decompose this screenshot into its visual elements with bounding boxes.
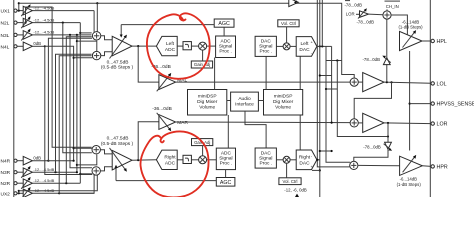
svg-text:Proc .: Proc . <box>260 160 273 166</box>
wire <box>17 182 23 184</box>
wire N2R tap up into sum1 <box>65 182 67 184</box>
svg-text:Proc .: Proc . <box>219 48 232 54</box>
svg-text:miniDSP: miniDSP <box>198 94 217 100</box>
left chip border rail <box>13 0 15 197</box>
wire <box>17 45 23 47</box>
svg-text:Dig Mixer: Dig Mixer <box>197 99 218 105</box>
svg-text:-12...-4.5dB: -12...-4.5dB <box>33 17 54 22</box>
multiplier <box>283 156 290 163</box>
svg-text:0dB: 0dB <box>33 41 41 46</box>
wire pga out up to MAR <box>138 122 159 160</box>
wire row1 out <box>32 10 94 12</box>
label CH_IN (cut) <box>385 0 401 2</box>
wire N3R out <box>32 171 77 173</box>
svg-text:-78...0dB: -78...0dB <box>363 57 381 62</box>
amp N4R (fixed) <box>23 155 41 165</box>
amp LOR to HPL <box>358 8 369 18</box>
decimation filter box <box>183 155 191 163</box>
Right DAC <box>296 150 317 170</box>
MICPGA right <box>101 135 134 180</box>
AGC box <box>214 19 234 27</box>
wire Gain Adj to multiplier <box>202 146 204 156</box>
miniDSP left box <box>188 90 227 116</box>
wire Right DAC out <box>317 159 320 161</box>
LOR driver amp <box>363 113 384 132</box>
svg-text:-6...14dB: -6...14dB <box>400 176 418 181</box>
ADC Signal Proc box <box>216 148 235 170</box>
svg-text:-12...-4.5dB: -12...-4.5dB <box>33 178 54 183</box>
wire <box>17 34 23 36</box>
svg-text:miniDSP: miniDSP <box>274 94 293 100</box>
svg-text:AGC: AGC <box>220 180 232 186</box>
wire ADC SP to AGC <box>225 170 227 178</box>
summing node HPL <box>383 11 391 19</box>
summing node sum1 <box>92 32 100 40</box>
wire sum4 to pga <box>100 167 112 171</box>
wire lattice h2 <box>326 88 337 90</box>
wire pga out down to MAL <box>138 46 159 82</box>
svg-text:N2R: N2R <box>1 181 11 187</box>
svg-text:Right: Right <box>299 155 311 161</box>
svg-text:-12...-4.5dB: -12...-4.5dB <box>33 167 54 172</box>
wire N2R staircase into sum4 <box>79 173 81 175</box>
svg-text:-78...0dB: -78...0dB <box>363 144 381 149</box>
wire row4 staircase into sum2 / sum3 <box>45 46 74 160</box>
red circle around Left ADC <box>147 13 210 78</box>
svg-text:N2L: N2L <box>1 21 10 27</box>
Right ADC <box>156 150 177 169</box>
wire lattice h1 <box>320 75 332 77</box>
wire AI links <box>227 100 231 102</box>
svg-text:ADC: ADC <box>165 161 176 167</box>
wire N4R tap up into sum1 <box>47 160 49 162</box>
wire to HPR pin <box>422 165 431 168</box>
cut amp top <box>289 0 299 7</box>
LOL driver amp <box>363 73 384 92</box>
svg-text:DAC: DAC <box>299 47 310 53</box>
wire row2 staircase into sum1 <box>79 23 81 184</box>
wire <box>276 159 283 161</box>
wire row3 tap down into sum4 <box>69 34 71 36</box>
wire N4R out <box>32 160 48 162</box>
wire <box>177 159 183 161</box>
summing node sum3 <box>92 146 100 154</box>
wire AGC to MICPGA control <box>121 24 214 26</box>
svg-text:HPR: HPR <box>437 164 448 170</box>
summing node sum4 <box>92 167 100 175</box>
svg-text:UX1: UX1 <box>1 9 11 15</box>
wire LOL loopback to LOR sum <box>354 82 391 119</box>
wire HPR sum to driver <box>358 164 400 166</box>
wire sum3 to pga <box>100 150 112 154</box>
svg-text:LOL: LOL <box>437 81 447 87</box>
Left DAC <box>296 37 317 57</box>
wire <box>191 159 198 161</box>
pin HPVSS_SENSE <box>431 102 434 105</box>
svg-text:N4L: N4L <box>1 44 10 50</box>
wire N2R out <box>32 182 80 184</box>
right chip border rail <box>429 0 431 197</box>
wire Left DAC to miniDSP right <box>299 56 301 89</box>
pin LOR <box>431 122 434 125</box>
wire <box>276 45 283 47</box>
wire rail 317 <box>317 0 350 167</box>
multiplier <box>283 43 290 50</box>
amp N3R <box>21 166 54 178</box>
svg-text:Proc .: Proc . <box>260 49 273 55</box>
wire sum2 to pga <box>101 52 112 56</box>
wire AGC to ADC SP <box>223 27 225 36</box>
svg-text:LOR: LOR <box>437 122 448 128</box>
wire AUX2 tap up into sum2 <box>58 192 60 194</box>
svg-text:Vol. Ctrl: Vol. Ctrl <box>281 21 296 26</box>
wire <box>17 22 23 24</box>
wire <box>17 192 23 194</box>
wire bypass A from AUX1 row <box>18 10 20 12</box>
amp row3 <box>21 29 54 41</box>
svg-text:Right: Right <box>164 155 176 161</box>
pin HPR <box>431 165 434 168</box>
wire Gain Adj to multiplier <box>202 50 204 61</box>
amp N2R <box>21 177 54 189</box>
wire DAC SP to miniDSP right <box>265 56 267 89</box>
sense rail <box>409 51 411 151</box>
wire LOR out <box>384 122 431 125</box>
amp row2 <box>21 16 54 28</box>
wire to HPL pin <box>422 40 431 42</box>
svg-text:Volume: Volume <box>199 104 215 110</box>
svg-text:N4R: N4R <box>1 159 11 165</box>
HPL driver amp <box>398 19 423 50</box>
wire <box>290 45 296 47</box>
svg-text:CH_IN: CH_IN <box>386 4 399 9</box>
svg-text:Proc .: Proc . <box>220 161 233 167</box>
svg-text:Left: Left <box>300 41 309 47</box>
svg-text:(0.5-dB Steps ): (0.5-dB Steps ) <box>101 141 134 147</box>
wire bottom bypass <box>18 192 20 194</box>
wire lattice h3 <box>320 150 332 152</box>
wire rail 322 <box>321 0 323 46</box>
Vol Ctrl box <box>279 178 301 185</box>
Left ADC <box>156 36 177 55</box>
wire LOL out <box>384 82 431 83</box>
svg-text:(0.5-dB Steps ): (0.5-dB Steps ) <box>101 65 134 71</box>
HPR driver amp <box>397 155 423 187</box>
pin LOL <box>431 82 434 85</box>
summing node LOL <box>350 78 358 86</box>
wire to HPL sum <box>369 13 383 16</box>
wire row3 tap2 into sum2 top <box>76 34 78 36</box>
svg-text:-12, -6, 0dB: -12, -6, 0dB <box>284 188 307 193</box>
wire bypass A branch into sum1 top <box>96 2 98 4</box>
wire HPL sum to driver <box>391 15 407 34</box>
svg-text:Volume: Volume <box>275 104 291 110</box>
svg-text:Audio: Audio <box>238 96 251 102</box>
ADC Signal Proc box <box>216 36 236 58</box>
svg-text:DAC: DAC <box>299 161 310 167</box>
wire <box>17 171 23 173</box>
amp row4 (fixed gain) <box>23 41 41 51</box>
wire <box>191 45 198 47</box>
wire N4R to bus join <box>48 160 73 162</box>
svg-text:Left: Left <box>166 41 175 47</box>
AGC box <box>216 178 235 187</box>
wire pga out to Left ADC <box>132 45 156 47</box>
svg-text:-12...-4.5dB: -12...-4.5dB <box>33 30 54 35</box>
wire <box>17 160 23 162</box>
wire 331 <box>331 46 333 122</box>
summing node LOR <box>350 119 358 127</box>
wire Vol Ctrl to multiplier <box>286 27 288 43</box>
wire rail 320 <box>319 0 321 197</box>
wire to pin <box>410 103 431 105</box>
wire <box>207 45 216 47</box>
DAC Signal Proc box <box>255 36 276 56</box>
wire N3R tap up into sum2 <box>54 171 56 173</box>
svg-text:HPVSS_SENSE: HPVSS_SENSE <box>437 102 474 108</box>
summing node HPR <box>350 161 358 169</box>
wire miniDSP left to ADC SP bottom <box>227 115 229 148</box>
Audio Interface box <box>231 92 259 111</box>
Gain Adj box <box>192 139 213 146</box>
svg-text:0...47.5dB: 0...47.5dB <box>107 135 129 141</box>
decimation filter box <box>183 42 191 50</box>
wire bypass B from IN2L row <box>24 22 26 24</box>
red circle around Right ADC <box>140 131 208 197</box>
multiplier <box>199 156 207 164</box>
wire row4 out <box>32 45 44 47</box>
svg-text:0dB: 0dB <box>33 155 41 160</box>
feedback amp LOR to HPR sum <box>354 123 392 161</box>
amp row1 <box>21 4 54 16</box>
wire MAL out to LOL sum <box>176 81 350 83</box>
wire row3 out <box>32 34 91 36</box>
wire Left DAC out <box>317 45 332 47</box>
multiplier (digital volume) <box>199 42 207 50</box>
wire AUX2 corner into sum4 bottom <box>59 175 94 194</box>
svg-text:Interface: Interface <box>235 102 254 108</box>
wire row1 corner into sum1 top <box>93 11 95 32</box>
svg-text:-78...0dB: -78...0dB <box>345 2 363 7</box>
svg-text:(1-dB Steps): (1-dB Steps) <box>398 25 423 30</box>
wire <box>177 45 183 47</box>
amp AUX2 <box>21 187 54 199</box>
svg-text:N3L: N3L <box>1 33 10 39</box>
wire N3R tap2 into sum3 bottom <box>76 171 78 173</box>
svg-text:-36...0dB: -36...0dB <box>152 106 171 112</box>
svg-text:-12...-4.5dB: -12...-4.5dB <box>33 5 54 10</box>
svg-text:N3R: N3R <box>1 170 11 176</box>
summing node sum2 <box>92 51 100 59</box>
svg-text:LOR: LOR <box>346 12 355 17</box>
wire miniDSP right to Right DAC <box>299 115 301 150</box>
wire <box>17 10 23 12</box>
wire 337 <box>326 60 342 62</box>
svg-text:ADC: ADC <box>165 47 176 53</box>
wire ADC SP to miniDSP left <box>214 58 216 90</box>
wire row4 tap down into sum4 <box>44 45 46 47</box>
svg-text:AGC: AGC <box>218 21 230 27</box>
MICPGA left <box>101 25 134 71</box>
wire pga out to Right ADC <box>132 159 156 161</box>
Gain Adj box <box>191 61 212 68</box>
svg-text:-78...0dB: -78...0dB <box>357 19 375 24</box>
svg-text:Dig Mixer: Dig Mixer <box>273 99 294 105</box>
mixer amp MAL <box>151 64 187 91</box>
svg-text:HPL: HPL <box>437 39 447 45</box>
wire sum1 to pga <box>101 36 112 40</box>
cut amp arrow bottom <box>295 194 299 197</box>
mixer amp MAR <box>152 106 188 131</box>
wire AGC to MICPGA control <box>116 180 216 182</box>
pin HPL <box>431 39 434 42</box>
Vol Ctrl box <box>278 20 299 27</box>
svg-text:Vol. Ctrl: Vol. Ctrl <box>282 179 297 184</box>
svg-text:UX2: UX2 <box>1 191 11 197</box>
wire 326 <box>326 46 350 162</box>
wire AI to DAC SP bottom <box>245 111 266 148</box>
wire row2 tap down into sum3 <box>62 22 64 24</box>
feedback amp LOL to HPL sum <box>363 19 391 82</box>
svg-text:(1-dB Steps): (1-dB Steps) <box>397 182 422 187</box>
miniDSP right box <box>264 90 303 116</box>
wire <box>290 159 296 161</box>
svg-text:MAR: MAR <box>177 120 188 126</box>
wire multiplier to Vol Ctrl <box>286 163 288 178</box>
DAC Signal Proc box <box>255 148 276 168</box>
wire row2 out <box>32 22 80 24</box>
wire AUX2 out <box>32 192 94 194</box>
svg-text:Gain Adj: Gain Adj <box>194 62 210 67</box>
wire <box>207 159 217 161</box>
wire MAR out to LOR sum <box>176 121 350 124</box>
